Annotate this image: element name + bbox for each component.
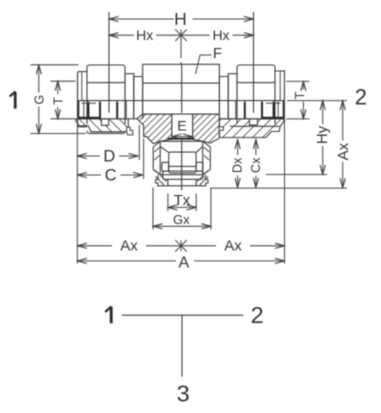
svg-text:G: G	[33, 95, 47, 105]
svg-text:E: E	[177, 119, 186, 135]
svg-text:Hx: Hx	[136, 27, 153, 43]
svg-text:2: 2	[251, 302, 264, 328]
svg-text:D: D	[103, 147, 115, 165]
svg-text:Ax: Ax	[335, 142, 352, 160]
svg-text:Cx: Cx	[249, 157, 263, 173]
svg-text:Dx: Dx	[230, 157, 244, 173]
svg-text:Ax: Ax	[120, 238, 138, 255]
svg-text:H: H	[174, 9, 187, 29]
svg-text:Hx: Hx	[212, 27, 229, 43]
svg-text:3: 3	[177, 381, 190, 407]
svg-text:Ax: Ax	[224, 238, 242, 255]
svg-text:C: C	[105, 166, 117, 184]
svg-text:T: T	[52, 97, 66, 105]
svg-text:2: 2	[355, 84, 367, 109]
svg-text:F: F	[213, 45, 222, 62]
svg-text:T: T	[293, 91, 307, 99]
svg-text:A: A	[178, 254, 189, 271]
svg-text:Tx: Tx	[174, 192, 191, 209]
svg-text:Hy: Hy	[314, 125, 331, 144]
svg-text:Gx: Gx	[173, 212, 190, 227]
